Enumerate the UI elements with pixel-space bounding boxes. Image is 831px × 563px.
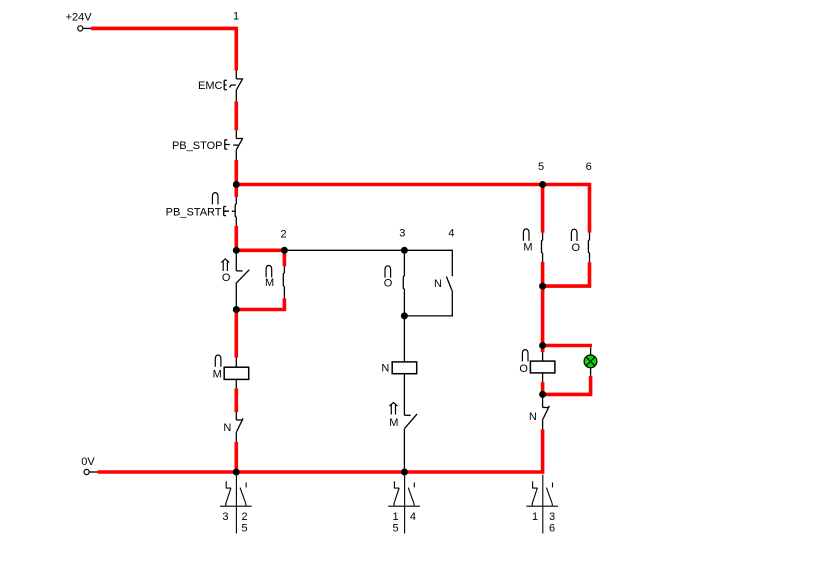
- svg-text:3: 3: [222, 511, 228, 523]
- contact M latch NO rung2 (shown closed): [283, 266, 284, 298]
- wire rung2 bottom corner to node C (red): [236, 298, 284, 309]
- svg-text:4: 4: [448, 227, 454, 239]
- svg-text:1: 1: [393, 511, 399, 523]
- svg-text:3: 3: [399, 227, 405, 239]
- wire rung1 PB_STOP to node A (red): [235, 160, 239, 197]
- wire lamp branch top (red): [543, 344, 592, 348]
- wire branch A to rung 5 and 6 (red): [236, 185, 589, 233]
- node A2 junction rung5 top: [539, 181, 546, 188]
- svg-text:O: O: [572, 242, 581, 254]
- svg-text:O: O: [222, 272, 231, 284]
- svg-text:O: O: [519, 363, 528, 375]
- contact M NO rung5 (shown closed): [542, 233, 543, 262]
- label M with arch coil M: [215, 355, 221, 367]
- svg-text:5: 5: [538, 161, 544, 173]
- node +24V terminal: [78, 26, 83, 31]
- svg-text:1: 1: [233, 11, 239, 23]
- contact EMC (NC emergency stop, closed): [224, 71, 243, 102]
- svg-text:PB_START: PB_START: [166, 206, 222, 218]
- svg-text:5: 5: [393, 523, 399, 535]
- lamp H1 leads: [590, 348, 592, 377]
- contact mirror N below rung3: [388, 475, 420, 534]
- wire rung1 EMC to PB_STOP (red): [235, 101, 239, 130]
- svg-text:N: N: [223, 422, 231, 434]
- svg-text:N: N: [434, 278, 442, 290]
- coil O: [542, 352, 544, 361]
- contact M NC rung3 (shown open, actuated): [404, 414, 417, 472]
- svg-text:M: M: [213, 369, 222, 381]
- contact PB_START (NO pushbutton, shown closed): [224, 197, 237, 226]
- svg-text:M: M: [265, 277, 274, 289]
- node E junction: [539, 283, 546, 290]
- label M with up-arrow rung3: [389, 403, 397, 415]
- svg-text:PB_STOP: PB_STOP: [172, 140, 223, 152]
- svg-text:M: M: [523, 242, 532, 254]
- contact O NO rung6 (shown closed): [588, 233, 589, 263]
- coil M: [235, 358, 237, 368]
- contact N NC rung5 (closed): [543, 394, 550, 429]
- svg-text:1: 1: [532, 511, 538, 523]
- wire node E to node F (red): [541, 286, 545, 352]
- contact PB_STOP (NC pushbutton, closed): [225, 130, 243, 160]
- wire +24V bus to rung 1 (red, live): [91, 28, 236, 70]
- label O with arch rung6: [571, 229, 577, 241]
- contact N NC rung1 (closed): [236, 412, 243, 442]
- svg-text:O: O: [384, 278, 393, 290]
- node junction rung2 top: [281, 247, 288, 254]
- label M with arch rung2: [266, 265, 272, 277]
- wire node B to M latch contact (red): [236, 250, 284, 266]
- contact N NO rung4 (shown open): [404, 277, 452, 316]
- svg-text:5: 5: [242, 523, 248, 535]
- lamp H1 (green indicator): [584, 355, 597, 368]
- contact mirror M below rung1: [220, 475, 252, 534]
- svg-text:2: 2: [242, 511, 248, 523]
- label O with arch rung3: [385, 266, 391, 278]
- node bus junction rung1: [233, 469, 240, 476]
- svg-text:N: N: [381, 362, 389, 374]
- node G junction: [539, 391, 546, 398]
- svg-text:6: 6: [549, 523, 555, 535]
- svg-text:6: 6: [586, 161, 592, 173]
- svg-text:+24V: +24V: [66, 12, 93, 24]
- wire coil O to node G (red): [541, 382, 545, 394]
- wire contact N to 0V bus (red): [235, 442, 239, 472]
- label O with up-arrow rung1: [221, 259, 229, 271]
- svg-text:4: 4: [410, 511, 416, 523]
- wire coil M to contact N (red): [235, 388, 239, 412]
- wire node A2 down to contact M rung5 (red): [541, 185, 545, 233]
- svg-text:3: 3: [549, 511, 555, 523]
- svg-text:EMC: EMC: [198, 80, 223, 92]
- wire 0V bus (red) with corner up to rung5: [98, 430, 543, 473]
- node A junction: [233, 181, 240, 188]
- svg-text:M: M: [389, 417, 398, 429]
- wire terminal stub +24V: [83, 27, 91, 29]
- node B junction: [233, 247, 240, 254]
- svg-text:0V: 0V: [81, 456, 95, 468]
- wire rung5 contact M to node E (red): [541, 262, 545, 286]
- wire rung2-3-4 horizontal (black): [284, 250, 452, 276]
- contact mirror O below rung5: [526, 475, 558, 534]
- contact O NO rung3 (shown closed): [403, 250, 404, 316]
- label M with arch rung5: [523, 229, 529, 241]
- wire node C down to coil M (red): [235, 310, 239, 358]
- label O with arch coil O: [522, 350, 528, 362]
- node junction rung3 top: [401, 247, 408, 254]
- node F junction lamp branch: [539, 342, 546, 349]
- contact O NC on rung1 (shown open, actuated): [236, 253, 250, 307]
- node D junction rung3: [401, 312, 408, 319]
- node bus junction rung3: [401, 469, 408, 476]
- wire rung1 PB_START to node B (red): [235, 226, 239, 253]
- wire terminal stub 0V: [89, 471, 97, 473]
- node C junction: [233, 306, 240, 313]
- wire lamp branch bottom (red): [543, 376, 591, 394]
- svg-text:N: N: [529, 411, 537, 423]
- wire rung6 bottom corner to node E (red): [543, 262, 590, 286]
- node 0V terminal: [84, 469, 89, 474]
- svg-text:2: 2: [280, 228, 286, 240]
- coil N: [403, 316, 405, 362]
